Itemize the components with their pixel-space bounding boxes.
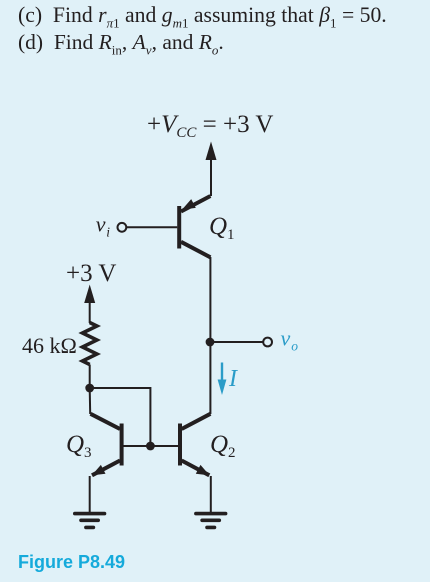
Q1 collector diagonal — [181, 242, 210, 257]
svg-text:+3 V: +3 V — [66, 260, 116, 287]
Q1 emitter arrowhead (PNP, into bar) — [182, 199, 196, 210]
svg-text:46 kΩ: 46 kΩ — [22, 333, 77, 358]
svg-text:3: 3 — [84, 445, 92, 461]
Q1 base bar — [177, 206, 181, 249]
wire mirror node down to Q3 collector — [89, 388, 92, 414]
svg-text:o: o — [291, 338, 298, 353]
wire Q1 collector down to output node — [209, 257, 211, 342]
svg-text:I: I — [228, 366, 238, 392]
svg-text:v: v — [281, 326, 291, 351]
label vo — [281, 326, 299, 354]
svg-text:v: v — [96, 211, 106, 236]
Q2 emitter diagonal — [182, 461, 210, 476]
junction dot base rail — [146, 442, 155, 451]
svg-text:1: 1 — [227, 227, 235, 243]
wire Q2 emitter to ground — [210, 476, 212, 512]
wire mirror node right then down to base rail — [90, 388, 151, 446]
vi open circle — [118, 223, 127, 232]
svg-text:Q: Q — [209, 213, 227, 240]
junction dot mirror node — [85, 384, 94, 393]
svg-text:+VCC = +3 V: +VCC = +3 V — [147, 111, 273, 141]
Q2 emitter arrowhead — [196, 465, 210, 476]
label Q1 — [209, 213, 235, 243]
figure caption — [18, 552, 125, 573]
svg-text:i: i — [106, 224, 110, 239]
wire node to vo terminal — [210, 341, 263, 343]
label Q2 — [210, 431, 236, 461]
problem text line (c) — [18, 2, 387, 29]
wire resistor to mirror node — [89, 365, 91, 389]
Q3 base bar — [120, 424, 124, 466]
transistor Q2 — [180, 414, 210, 476]
base wire Q3 to Q2 — [123, 445, 178, 447]
Q2 base bar — [178, 424, 182, 466]
wire vi to Q1 base — [126, 226, 177, 228]
VCC supply arrow — [210, 159, 212, 196]
svg-text:Q: Q — [210, 431, 228, 458]
resistor 46 kOhm — [83, 323, 97, 365]
problem text line (d) — [18, 29, 224, 56]
input terminal vi — [96, 211, 111, 239]
Q2 collector diagonal — [182, 414, 211, 429]
Q3 collector diagonal — [91, 414, 121, 429]
svg-text:Q: Q — [66, 431, 84, 458]
label Q3 — [66, 431, 92, 461]
transistor Q3 (mirrored) — [91, 414, 122, 476]
svg-text:2: 2 — [228, 445, 236, 461]
label +3 V — [66, 260, 116, 287]
current I arrow — [221, 363, 223, 382]
Q1 emitter diagonal (to VCC) — [181, 196, 210, 212]
label 46 kOhm — [22, 333, 77, 358]
ground (Q3) — [75, 514, 105, 528]
Q3 emitter arrowhead — [92, 465, 106, 476]
wire node down to Q2 collector — [209, 342, 211, 414]
ground (Q2) — [196, 514, 226, 528]
+3V supply arrow — [89, 302, 91, 323]
label I — [228, 366, 238, 392]
wire Q3 emitter to ground — [89, 476, 91, 512]
node output junction — [206, 338, 215, 347]
vo open circle — [263, 338, 272, 347]
label +VCC = +3 V — [147, 111, 273, 141]
Q3 emitter diagonal — [92, 461, 120, 476]
transistor Q1 — [179, 196, 210, 257]
